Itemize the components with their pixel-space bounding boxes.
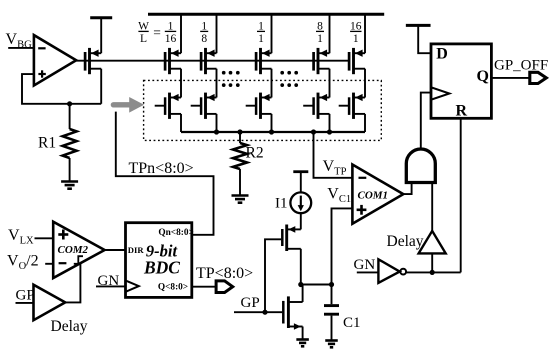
current source I1 — [290, 192, 311, 213]
ground G3 — [296, 340, 309, 347]
wire VTP — [314, 132, 353, 178]
wire M12 drain to switch — [216, 69, 218, 98]
svg-text:Delay: Delay — [387, 233, 424, 250]
wire M12 source to rail — [216, 14, 218, 53]
wire COM2 out — [105, 249, 126, 251]
wire M2 source to ground — [302, 327, 304, 340]
transistor M22 — [191, 93, 217, 119]
svg-text:1: 1 — [168, 21, 174, 33]
wire M14 drain to switch — [329, 69, 331, 98]
svg-text:D: D — [436, 46, 448, 63]
svg-text:16: 16 — [165, 33, 177, 45]
svg-text:R1: R1 — [38, 135, 56, 152]
svg-text:R2: R2 — [246, 145, 264, 162]
port TP bus — [216, 281, 233, 293]
transistor M23 — [246, 93, 272, 119]
comparator COM1 — [352, 165, 403, 224]
label ratio 1/1 — [257, 21, 265, 46]
wire I1 to M1 — [300, 213, 302, 229]
wire VLX in — [35, 237, 54, 239]
svg-text:1: 1 — [317, 33, 323, 45]
wire COM1 out — [403, 183, 411, 195]
node VC1 right — [329, 282, 334, 287]
svg-text:1: 1 — [258, 33, 264, 45]
power VDD3 — [293, 172, 308, 193]
svg-text:C1: C1 — [343, 315, 361, 331]
transistor M12 — [201, 48, 216, 74]
wire AND right input — [431, 183, 433, 232]
op-amp A1 — [34, 35, 76, 85]
comparator COM2 — [53, 222, 104, 278]
power rail top — [148, 13, 384, 16]
wire GP gates — [234, 311, 282, 313]
node feedback junction — [67, 101, 72, 106]
wire gate rail — [76, 60, 349, 62]
wire VC1 — [332, 208, 353, 284]
ground G1 — [61, 182, 78, 189]
svg-text:GP: GP — [16, 288, 35, 304]
transistor M24 — [303, 93, 329, 119]
svg-text:R: R — [456, 102, 468, 119]
wire VBG input — [8, 47, 34, 49]
svg-text:Qn<8:0>: Qn<8:0> — [158, 228, 193, 238]
wire op-amp plus feedback — [22, 74, 101, 104]
transistor M14 — [314, 48, 330, 74]
svg-text:8: 8 — [201, 33, 207, 45]
wire M23 drain to rail — [271, 114, 273, 132]
svg-text:GP_OFF: GP_OFF — [494, 58, 548, 74]
power VDD2 — [406, 25, 431, 53]
node rail junctions — [214, 129, 332, 134]
svg-text:DIR: DIR — [128, 245, 145, 255]
label ratio 1/8 — [200, 21, 208, 46]
inverter U4 — [378, 259, 406, 283]
wire M2 drain up — [302, 285, 304, 303]
wire source rail bottom — [181, 131, 365, 133]
resistor R1 — [63, 104, 77, 182]
transistor M11 — [165, 48, 181, 74]
wire R input — [460, 118, 462, 272]
wire M1 source down — [300, 249, 302, 285]
wire M1 gate — [265, 239, 281, 312]
wire VO2 in — [45, 263, 53, 265]
port GP_OFF — [530, 72, 547, 83]
and gate U2 — [406, 149, 435, 183]
wire delay in — [431, 253, 433, 272]
label ratio 16/1 — [350, 21, 362, 46]
wire delay1 out — [65, 263, 80, 302]
wire M0 drain down — [100, 69, 102, 104]
wire AND out to clock — [421, 93, 431, 149]
node VC1 left — [298, 282, 303, 287]
node GP junction — [262, 310, 267, 315]
svg-text:8: 8 — [317, 21, 323, 33]
delay buffer U6 — [34, 285, 66, 321]
svg-text:=: = — [153, 25, 161, 40]
wire M24 drain to rail — [329, 114, 331, 132]
svg-text:COM1: COM1 — [358, 190, 389, 202]
wire M13 source to rail — [271, 14, 273, 53]
ellipsis dots right gap — [280, 71, 298, 87]
node delay junction — [430, 270, 435, 275]
wire Q out — [491, 77, 529, 79]
svg-text:TPn<8:0>: TPn<8:0> — [129, 160, 194, 177]
wire M14 source to rail — [329, 14, 331, 53]
label W/L ratio — [138, 21, 161, 46]
label ratio 8/1 — [316, 21, 324, 46]
capacitor C1 — [324, 285, 339, 341]
svg-text:W: W — [138, 21, 149, 33]
svg-text:1: 1 — [258, 21, 264, 33]
transistor M25 — [339, 93, 365, 119]
svg-text:BDC: BDC — [143, 258, 180, 278]
svg-text:Delay: Delay — [51, 318, 88, 335]
ground G4 — [325, 341, 338, 348]
wire Q out — [192, 286, 216, 288]
wire GN clock — [96, 285, 126, 287]
svg-text:I1: I1 — [275, 196, 288, 212]
ellipsis dots left gap — [222, 71, 240, 87]
wire TPn bus — [116, 112, 214, 235]
svg-text:Q: Q — [477, 68, 489, 85]
transistor M2 — [283, 296, 302, 329]
wire M13 drain to switch — [271, 69, 273, 98]
svg-text:L: L — [140, 33, 147, 45]
transistor M13 — [256, 48, 271, 74]
flip-flop U3 — [431, 44, 491, 119]
transistor M0 — [85, 48, 101, 74]
wire M11 drain to switch — [180, 69, 182, 98]
counter BDC — [126, 223, 194, 298]
transistor M15 — [349, 48, 365, 74]
wire GN in — [357, 271, 379, 273]
wire GP in — [16, 302, 34, 304]
svg-text:GP: GP — [241, 295, 260, 311]
wire M15 drain to switch — [364, 69, 366, 98]
wire M21 drain to rail — [180, 114, 182, 132]
transistor M1 — [282, 225, 301, 252]
wire VC1 node — [301, 284, 332, 286]
wire M22 drain to rail — [216, 114, 218, 132]
ground G2 — [232, 196, 249, 203]
grey pointer arrow — [111, 97, 144, 113]
delay buffer U5 — [419, 231, 446, 254]
transistor M21 — [155, 93, 181, 119]
power VDD1 — [90, 18, 112, 54]
wire M15 source to rail — [364, 14, 366, 53]
svg-text:1: 1 — [353, 33, 359, 45]
svg-text:TP<8:0>: TP<8:0> — [196, 265, 253, 282]
svg-text:1: 1 — [201, 21, 207, 33]
svg-text:16: 16 — [350, 21, 362, 33]
resistor R2 — [233, 132, 247, 196]
svg-text:COM2: COM2 — [58, 244, 89, 256]
wire M11 source to rail — [180, 14, 182, 53]
svg-text:Q<8:0>: Q<8:0> — [158, 283, 188, 293]
svg-text:GN: GN — [354, 257, 376, 273]
wire inverter out — [406, 271, 461, 273]
dashed switch box — [144, 80, 382, 140]
label ratio 1/16 — [165, 21, 177, 46]
wire M25 drain to rail — [364, 114, 366, 132]
